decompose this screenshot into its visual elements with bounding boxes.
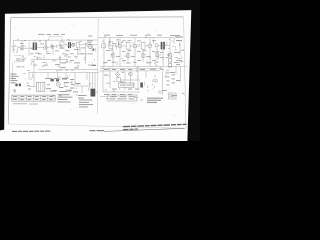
parts list text right of table (58, 94, 86, 102)
rule line under title (104, 128, 185, 131)
filter choke block (140, 83, 143, 88)
tone control marks (27, 84, 75, 89)
title line 1 (123, 124, 187, 128)
wire top bus right half (98, 36, 174, 38)
border frame bottom (8, 124, 186, 128)
diode load resistor (93, 49, 95, 51)
scan background (0, 0, 200, 141)
switch contact bank (167, 73, 176, 86)
AVC label row right (103, 62, 178, 64)
border frame top (11, 16, 184, 19)
wire bus taps lower-left (48, 73, 90, 94)
IF transformer T2 winding (68, 42, 71, 48)
wire lower-left riser (28, 60, 36, 87)
tuning gang label (17, 65, 25, 68)
wire plate row left half (24, 47, 32, 49)
page centerfold line (96, 18, 99, 114)
output transformer T5 (161, 42, 165, 50)
border frame left (8, 18, 11, 124)
tube V5 (118, 44, 122, 48)
tube V1 internal (21, 47, 23, 49)
wire output stage link (120, 79, 140, 81)
grid drops right (104, 47, 163, 67)
oscillator label text (20, 34, 93, 51)
wire heater bus (100, 67, 160, 69)
speaker field coil blob (91, 89, 96, 97)
volume control R-pair (15, 84, 21, 87)
pilot wires right (166, 42, 180, 78)
lower right labels (104, 69, 180, 96)
wire top bus left half (14, 39, 98, 41)
tube V4 (56, 82, 60, 86)
border frame right (184, 17, 187, 128)
wire AVC bus right half (100, 65, 187, 67)
B+ double line (38, 69, 98, 71)
value labels right mid (106, 50, 182, 65)
oscillator coil L2 (31, 55, 68, 60)
resistor R11 (106, 83, 110, 84)
title line 2 (123, 128, 138, 130)
tube V7 (148, 44, 152, 48)
tube socket table (12, 95, 55, 101)
resistor R3 (52, 60, 56, 62)
paper grain dots (14, 19, 184, 115)
scattered label dashes (52, 46, 81, 69)
coupling box (76, 42, 79, 47)
page number text (90, 130, 105, 131)
output transformer internals (39, 82, 43, 91)
electrolytic cluster (51, 79, 60, 82)
mid cluster text rows (45, 78, 78, 93)
note text block left (11, 74, 19, 84)
detector coupling verticals (46, 40, 80, 55)
speaker leads (90, 86, 98, 92)
antenna (12, 40, 16, 53)
wire stub speckle texture (14, 37, 185, 101)
IF transformer T2 can (60, 42, 64, 49)
cathode resistor box V9 (117, 78, 121, 82)
volume control leads (13, 90, 16, 93)
scanned page (0, 10, 191, 141)
lower right wires (100, 66, 146, 97)
wire B+ bus lower left (29, 71, 99, 73)
B+ labels above bus (58, 69, 74, 72)
wires left row (22, 40, 98, 64)
tube V1 converter (20, 47, 24, 51)
oscillator coil box faint (49, 36, 62, 40)
courtesy text (12, 131, 50, 132)
cathode resistor boxes right (112, 53, 158, 58)
tube V9 output (116, 73, 120, 77)
tube V10 rectifier (129, 72, 133, 76)
wire B+ bus lower right (99, 70, 160, 72)
speaker plug box (169, 93, 177, 99)
candohm box 1 (119, 83, 135, 88)
mixer grid box (102, 44, 106, 48)
tuning gang C1 (12, 56, 24, 80)
resistor R4 (74, 56, 78, 57)
capacitor C5 (59, 56, 62, 63)
wire field riser right (180, 66, 182, 82)
speaker voice coils (153, 80, 156, 83)
wire transformer riser (162, 71, 164, 95)
rows below table (13, 103, 38, 104)
tube V2 IF amp (44, 46, 48, 50)
output transformer box (36, 82, 45, 91)
tube center dots (22, 45, 151, 85)
IF transformer T2b (109, 42, 113, 49)
wire stub texture layer (15, 39, 179, 91)
tube V4a detector-2 (88, 44, 92, 48)
tube labels right half (104, 35, 180, 51)
legend rows right of table (79, 100, 93, 108)
power note text (147, 98, 163, 103)
switch circle (159, 91, 162, 94)
ground symbol left (66, 59, 68, 63)
candohm box 2 (108, 95, 137, 101)
tube V6 (133, 44, 137, 48)
IF transformer T3 (126, 42, 130, 49)
field coil risers (90, 73, 96, 89)
IF transformer T1 (33, 43, 37, 51)
tube V8 (155, 44, 158, 47)
IF transformer T4 (141, 42, 145, 49)
cluster text lower-left (50, 79, 81, 92)
tube V3 detector (72, 44, 75, 47)
value labels mid-left row (33, 53, 94, 66)
divider resistor chain (168, 54, 171, 67)
mid text dash row (30, 52, 88, 55)
wires right top row (104, 37, 174, 55)
AVC label dark (92, 65, 96, 66)
speaker label dashes (175, 37, 183, 42)
